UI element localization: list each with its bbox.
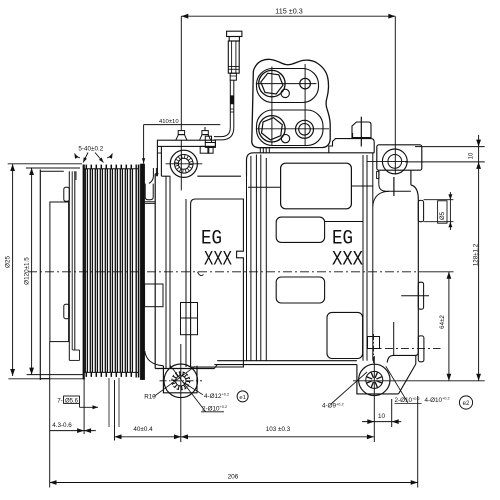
extension lines below pulley: [108, 378, 110, 427]
pulley groove top profile: [83, 168, 139, 170]
rear ear pin left: [377, 171, 379, 178]
clutch front plate edge line: [39, 170, 41, 381]
connector plug cap: [227, 31, 242, 36]
clamp block on boss column: [181, 303, 198, 335]
dimension 64±2 right: [448, 272, 450, 381]
svg-text:410±10: 410±10: [159, 119, 179, 125]
pad mid-left rounded rectangle: [276, 217, 324, 242]
svg-text:Ø5.6: Ø5.6: [65, 398, 79, 404]
lower ports crosshair: [256, 128, 329, 130]
svg-text:40±0.4: 40±0.4: [133, 426, 153, 433]
front housing face panel EG XXX: [191, 199, 244, 367]
datum circle e2: [459, 396, 472, 409]
pad upper rounded rectangle: [281, 163, 352, 209]
svg-text:EG: EG: [332, 228, 353, 251]
cylinder-head joint lines: [362, 155, 364, 361]
svg-text:4.3-0.6: 4.3-0.6: [52, 422, 72, 429]
clutch damper tab top: [64, 187, 70, 201]
svg-text:e1: e1: [239, 395, 245, 401]
stud block on boss: [352, 122, 371, 138]
svg-text:10: 10: [378, 413, 386, 420]
cable bend: [214, 128, 230, 137]
clutch damper tab bottom: [64, 304, 70, 319]
cable: [229, 80, 231, 127]
front housing outline: [154, 174, 156, 369]
clutch hub rectangle: [50, 202, 69, 342]
rear ear hole: [382, 149, 407, 174]
manifold lower flange lobe: [257, 110, 324, 146]
connector body: [228, 41, 239, 73]
front lug R10 fillet: [145, 351, 164, 366]
dimension Ø5 boxed right: [424, 199, 454, 201]
svg-text:XXX: XXX: [332, 249, 363, 272]
svg-text:Ø120±1.5: Ø120±1.5: [24, 257, 31, 285]
svg-text:5-40±0.2: 5-40±0.2: [78, 145, 103, 152]
extension line left bolt center: [180, 16, 182, 130]
centerline break hook: [198, 272, 204, 276]
upper ports crosshair: [256, 83, 317, 85]
svg-text:64±2: 64±2: [439, 315, 446, 329]
front housing bolt boss column lines: [165, 176, 167, 368]
pulley groove bottom profile: [83, 371, 139, 373]
front lug crosshair: [160, 380, 203, 382]
svg-text:10: 10: [468, 152, 474, 159]
svg-text:Ø5: Ø5: [440, 211, 446, 220]
cylinder block top edge: [247, 153, 375, 176]
svg-text:e2: e2: [463, 401, 470, 407]
front lower lug: [163, 366, 197, 393]
rear bolt mid-bottom: [368, 337, 380, 349]
svg-text:206: 206: [228, 473, 239, 480]
front lug leader lines: [154, 366, 196, 397]
pad lower-right rounded rectangle: [327, 312, 363, 358]
lower right port: [296, 120, 314, 138]
datum circle e1: [237, 391, 248, 402]
svg-text:128±1.2: 128±1.2: [473, 243, 480, 266]
rear mounting ear block: [377, 145, 422, 170]
dimension Ø125 pulley outer: [12, 164, 14, 376]
discharge port lower: [259, 116, 285, 142]
manifold upper flange lobe: [257, 69, 319, 103]
manifold mounting feet: [259, 148, 261, 154]
manifold outline: [252, 59, 330, 147]
bracket bolt 1: [178, 131, 184, 135]
dimension row 40±0.4 and 103±0.3: [115, 436, 374, 438]
dimension line 4.3-0.6: [50, 430, 96, 432]
rear head top-left fillet: [379, 170, 411, 191]
pad lower-left rounded rectangle: [276, 277, 324, 303]
cable clamp blocks: [205, 136, 211, 142]
dimension 10 rear lug offset: [362, 421, 401, 423]
rear head cover plate tab 1: [418, 200, 423, 221]
dimension 115±0.3 top: [181, 15, 395, 17]
svg-text:115 ±0.3: 115 ±0.3: [275, 7, 302, 16]
svg-text:Ø25: Ø25: [5, 256, 12, 268]
dimension 206 overall: [50, 482, 418, 484]
svg-text:XXX: XXX: [204, 249, 232, 272]
pulley ribbed belt section: [83, 165, 85, 380]
upper small port: [300, 78, 311, 89]
dimension 128±1.2 right: [476, 374, 481, 381]
block below bracket right: [200, 146, 209, 153]
upper port tab: [281, 89, 289, 97]
svg-text:R10: R10: [144, 394, 156, 401]
lower port tab: [281, 134, 289, 142]
dimension 10 top right: [415, 146, 485, 148]
suction port upper: [259, 70, 285, 96]
svg-text:103 ±0.3: 103 ±0.3: [266, 426, 291, 433]
dimension Ø120±1.5 pulley inner: [31, 168, 33, 375]
front ear crosshair: [166, 163, 203, 165]
shaft seal block: [145, 284, 163, 307]
rear head cover plate tab 3: [418, 336, 424, 362]
gusset to rear lug: [415, 355, 417, 364]
rear lower lug: [357, 365, 399, 394]
bracket mounting plate: [157, 140, 215, 146]
discharge boss on cylinder top: [329, 139, 374, 153]
front mounting ear boss: [170, 150, 197, 177]
rear head cover plate tab 2: [418, 282, 423, 309]
rear head outline: [410, 170, 412, 185]
cylinder block bottom edge: [217, 360, 357, 362]
pulley rear flange thick bar: [140, 164, 144, 380]
bracket bolt 2: [202, 131, 208, 135]
extension line rear ear center: [394, 16, 396, 174]
housing-cylinder joint lines: [246, 158, 248, 361]
rear ear crosshair horizontal: [367, 160, 408, 162]
svg-text:7-: 7-: [57, 397, 63, 404]
rear lug crosshair: [353, 380, 485, 382]
front ear knurled bushing: [175, 155, 194, 174]
connector stem: [230, 73, 236, 80]
bracket foot channel: [145, 184, 153, 200]
rear lug spline spokes: [376, 381, 382, 383]
line pad1 to head joint: [351, 185, 372, 187]
clutch plate stack lines: [68, 171, 70, 360]
centerline main axis: [28, 271, 420, 273]
svg-text:EG: EG: [201, 228, 222, 251]
